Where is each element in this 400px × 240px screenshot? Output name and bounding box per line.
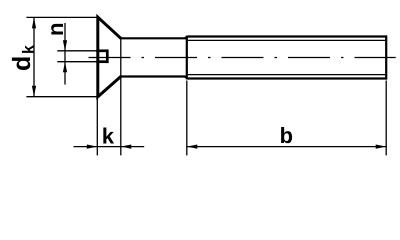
thread major diameter top line [185,37,387,39]
dimension n : lower (upward) arrowhead [63,62,67,72]
slot top edge [96,49,108,52]
dimension k : left dimension line with right arrowhead [74,146,98,148]
dimension n : top extension line [57,50,96,52]
shank top line [120,37,186,39]
cone-to-shank boundary line [120,38,122,76]
dimension d_k : top extension line [26,16,97,18]
screw end face line [385,35,387,79]
dimension d_k : bottom extension line [26,96,97,98]
label n (rotated) [51,24,63,35]
thread minor diameter top line [188,39,385,41]
label k subscript of d_k (rotated) [22,45,34,53]
dimension n : upper (downward) arrowhead [63,40,67,51]
dimension d_k : upper arrowhead [32,17,36,28]
screw head outline (countersunk head, face + cone) [98,17,121,97]
dimension n : dimension line [64,23,66,85]
dimension k : left extension line [96,99,98,156]
dimension k : right extension line [120,78,122,156]
dimension b : left extension line [186,81,188,156]
center axis line (dash-dot) [89,57,396,59]
shank bottom line [120,75,186,77]
dimension k : connecting line between extension lines [97,146,121,148]
label b [281,127,292,143]
thread minor diameter bottom line [188,74,385,76]
thread major diameter bottom line [185,77,387,79]
dimension d_k : dimension line [33,17,35,96]
dimension d_k : lower arrowhead [32,86,36,97]
slot bottom edge [96,60,108,63]
dimension k : right dimension line with left arrowhead [121,146,144,148]
dimension b : left arrowhead [187,145,198,149]
dimension b : dimension line [187,146,386,148]
dimension n : bottom extension line [57,61,96,63]
label d of d_k (rotated) [12,57,30,70]
dimension b : right extension line [385,81,387,156]
label k [103,128,114,144]
slot depth line [106,50,109,64]
thread start boundary line [186,36,188,80]
dimension b : right arrowhead [376,145,387,149]
